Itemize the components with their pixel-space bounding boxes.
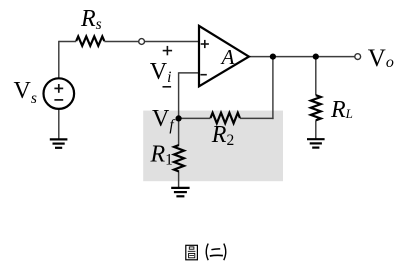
ground under R1 — [171, 187, 189, 189]
wire Vs bottom to ground — [58, 109, 60, 139]
Vi minus polarity — [163, 86, 172, 88]
svg-text:Vs: Vs — [14, 78, 37, 107]
op-amp U1 triangle — [199, 26, 249, 86]
op-amp + input marker — [201, 43, 209, 45]
resistor RL zigzag — [311, 95, 321, 120]
wire Vs branch vertical — [58, 41, 60, 79]
caption glyph 圖 — [186, 245, 198, 259]
wire Vf node down to R1 — [178, 118, 180, 145]
resistor R1 zigzag — [174, 145, 184, 172]
wire feedback horizontal right segment — [240, 117, 274, 119]
wire output node down to feedback — [272, 57, 274, 120]
Vs minus sign — [54, 99, 63, 101]
wire RL branch vertical — [315, 57, 317, 96]
wire Rs to input terminal — [104, 41, 139, 43]
wire from Vs top corner to Rs — [59, 41, 76, 43]
input terminal node — [139, 39, 145, 45]
svg-text:Rs: Rs — [80, 6, 102, 33]
caption open paren — [206, 244, 208, 261]
node Vf junction — [176, 115, 182, 121]
Vi plus polarity — [163, 50, 172, 52]
wire op-amp - input — [179, 72, 200, 74]
svg-text:Vi: Vi — [150, 59, 172, 86]
svg-text:A: A — [220, 45, 235, 69]
svg-text:Vo: Vo — [368, 45, 394, 72]
feedback network highlight box — [143, 111, 283, 182]
wire R2 to Vf node — [179, 117, 211, 119]
voltage source Vs circle — [44, 78, 75, 109]
op-amp - input marker — [200, 74, 206, 76]
wire op-amp output — [249, 56, 355, 58]
resistor R2 zigzag — [211, 113, 240, 124]
resistor Rs zigzag — [76, 36, 104, 45]
ground under Vs — [50, 138, 68, 140]
ground under RL — [307, 138, 325, 140]
wire R1 to ground — [178, 172, 180, 188]
svg-text:Vf: Vf — [152, 106, 176, 134]
output junction node — [270, 54, 276, 60]
wire RL to ground — [315, 120, 317, 139]
wire feedback left vertical (minus input to Vf node) — [178, 72, 180, 118]
caption close paren — [224, 244, 226, 261]
svg-text:RL: RL — [330, 97, 353, 123]
caption glyph 二 — [211, 248, 220, 251]
Vs plus sign — [54, 87, 63, 89]
load junction node — [313, 54, 319, 60]
output terminal node Vo — [355, 54, 361, 60]
wire input terminal to op-amp + input — [144, 41, 199, 43]
